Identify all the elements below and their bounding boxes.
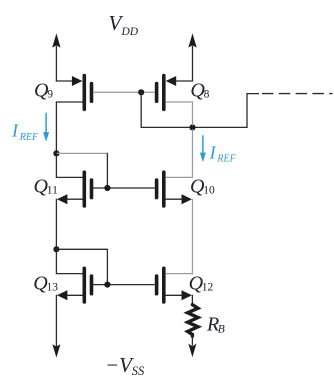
node: Q8 drain on output line (189, 124, 195, 130)
wire: Q9 drain down left rail (55, 102, 57, 153)
wire: Q8 drain down to node (192, 102, 194, 125)
svg-text:SS: SS (132, 364, 145, 378)
svg-text:I: I (11, 120, 19, 140)
label -VSS (105, 353, 145, 378)
wire: right rail Q10 source to Q12 drain (192, 199, 194, 273)
svg-text:13: 13 (47, 281, 59, 293)
label IREF left (11, 120, 39, 142)
wire: dashed continuation (262, 93, 333, 95)
wire: Q12 source to resistor (191, 295, 193, 305)
node: row3 gate junction (104, 282, 110, 288)
label Q12 (189, 273, 214, 295)
label RB (206, 313, 225, 335)
svg-text:DD: DD (121, 26, 139, 38)
-VSS arrow right (down) (188, 344, 196, 357)
transistor Q13 (NMOS) (57, 268, 92, 302)
svg-text:I: I (209, 142, 217, 162)
svg-text:12: 12 (202, 281, 214, 293)
current arrow IREF left (43, 113, 49, 142)
svg-text:10: 10 (203, 184, 215, 196)
wire: gate line Q11-Q10 (94, 187, 155, 189)
wire: Q11 source down left rail (55, 199, 57, 249)
label Q11 (34, 176, 59, 198)
wire: drop to row2 gate line (106, 153, 108, 188)
node B: Q11 source / Q13 drain junction (53, 246, 59, 252)
wire: right rail Q8 node to Q10 drain (192, 130, 194, 177)
label Q10 (190, 176, 215, 198)
transistor Q9 (PMOS) (56, 76, 91, 110)
svg-text:REF: REF (216, 154, 236, 165)
svg-text:8: 8 (204, 88, 210, 100)
node A: Q9 drain / Q11 drain junction (53, 150, 59, 156)
wire: Q13 source to -VSS arrow (55, 295, 57, 346)
label Q9 (34, 80, 53, 102)
svg-text:9: 9 (47, 88, 53, 100)
svg-text:REF: REF (19, 132, 39, 143)
label IREF right (209, 142, 237, 164)
wire: row3 gate line Q13-Q12 (94, 284, 155, 286)
wire: resistor to -VSS arrow (191, 336, 193, 345)
node: gate of Q9/Q8 (138, 89, 144, 95)
svg-text:−V: −V (105, 353, 134, 377)
wire: gate line Q9-Q8 (94, 91, 155, 93)
transistor Q12 (NMOS, mirrored) (157, 268, 193, 302)
transistor Q10 (NMOS, mirrored) (157, 172, 193, 206)
svg-text:B: B (218, 324, 225, 336)
label Q13 (33, 273, 58, 295)
wire: output line to dashed stub (141, 94, 258, 128)
node: row2 gate junction (104, 185, 110, 191)
resistor RB (188, 305, 198, 337)
wire: node B to row3 gate (56, 249, 107, 284)
wire: diode connection drop from gate node (140, 92, 142, 127)
svg-text:11: 11 (47, 184, 58, 196)
VDD power arrow left (52, 33, 60, 81)
wire: left rail node B to Q13 drain (56, 249, 82, 273)
VDD power arrow right (188, 33, 196, 81)
label Q8 (190, 80, 209, 102)
transistor Q8 (PMOS, mirrored) (157, 76, 193, 110)
wire: node A to row2 gate (horizontal gray) (56, 152, 107, 154)
wire: left rail node A to Q11 drain (56, 153, 82, 177)
-VSS arrow left (down) (52, 344, 60, 357)
transistor Q11 (NMOS) (57, 172, 92, 206)
label VDD (109, 11, 139, 38)
current arrow IREF right (200, 136, 206, 162)
